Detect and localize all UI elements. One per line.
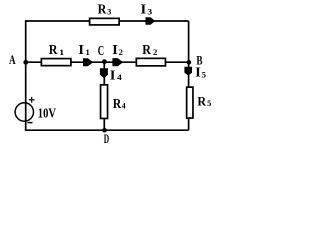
resistor R4 bbox=[101, 85, 108, 119]
node A dot bbox=[23, 60, 28, 65]
label R1 bbox=[49, 43, 64, 58]
svg-text:4: 4 bbox=[117, 72, 122, 82]
svg-text:R: R bbox=[142, 43, 151, 58]
svg-text:1: 1 bbox=[59, 47, 64, 57]
label I1 bbox=[78, 43, 90, 58]
svg-text:B: B bbox=[196, 52, 202, 67]
wire bottom bbox=[25, 129, 189, 131]
wire right vertical bbox=[188, 21, 190, 130]
svg-text:5: 5 bbox=[207, 98, 212, 108]
label R2 bbox=[142, 43, 158, 58]
current arrow I5 bbox=[184, 67, 192, 76]
label I2 bbox=[112, 43, 123, 58]
resistor R5 bbox=[187, 87, 193, 118]
svg-text:I: I bbox=[112, 43, 118, 58]
label I3 bbox=[141, 3, 153, 18]
svg-text:A: A bbox=[9, 52, 16, 67]
label I5 bbox=[195, 66, 206, 81]
svg-text:C: C bbox=[98, 44, 104, 59]
voltage source plus sign bbox=[29, 97, 35, 103]
current arrow I3 bbox=[146, 17, 156, 24]
svg-text:R: R bbox=[197, 93, 206, 108]
wire left vertical bbox=[25, 20, 27, 130]
wire top bbox=[26, 20, 189, 22]
resistor R1 bbox=[41, 59, 71, 66]
current arrow I2 bbox=[112, 58, 123, 66]
node C dot bbox=[102, 59, 107, 64]
current arrow I4 bbox=[100, 68, 108, 78]
svg-text:I: I bbox=[78, 43, 84, 58]
label R5 bbox=[197, 93, 211, 108]
node D dot bbox=[102, 128, 107, 133]
svg-text:R: R bbox=[98, 3, 107, 18]
current arrow I1 bbox=[83, 58, 93, 66]
voltage source circle bbox=[15, 103, 33, 121]
voltage source minus sign bbox=[27, 122, 32, 124]
label R3 bbox=[98, 3, 112, 18]
node B dot bbox=[187, 60, 192, 65]
svg-text:R: R bbox=[49, 43, 58, 58]
svg-text:D: D bbox=[104, 131, 109, 146]
svg-text:R: R bbox=[113, 97, 122, 112]
svg-text:I: I bbox=[195, 66, 201, 81]
svg-text:I: I bbox=[141, 3, 147, 18]
svg-text:3: 3 bbox=[107, 6, 112, 16]
svg-text:4: 4 bbox=[122, 101, 126, 111]
svg-text:I: I bbox=[110, 68, 116, 83]
svg-text:10V: 10V bbox=[38, 107, 56, 122]
resistor R3 bbox=[90, 18, 120, 25]
svg-text:1: 1 bbox=[86, 47, 90, 57]
wire middle A to B bbox=[26, 61, 189, 63]
label R4 bbox=[113, 97, 127, 112]
svg-text:2: 2 bbox=[119, 47, 124, 57]
resistor R2 bbox=[136, 58, 165, 66]
label I4 bbox=[110, 68, 123, 83]
wire C to D vertical bbox=[103, 62, 105, 130]
svg-text:5: 5 bbox=[202, 69, 207, 79]
svg-text:2: 2 bbox=[153, 47, 158, 57]
svg-text:3: 3 bbox=[147, 6, 152, 16]
